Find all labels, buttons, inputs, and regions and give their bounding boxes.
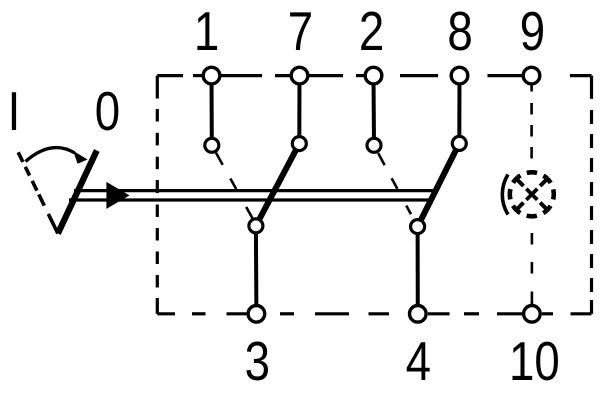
movable blade 8-4 (closed) (418, 143, 460, 226)
actuator bar bottom line (69, 198, 431, 201)
rotation arrow head (73, 151, 88, 164)
movable blade 7-3 (closed) (256, 144, 299, 226)
lever alternate position 0 (dashed) (18, 152, 58, 233)
svg-text:9: 9 (520, 0, 545, 62)
contact 1 (205, 138, 219, 152)
enclosure right edge (dashed) (590, 76, 593, 314)
pivot contact 3 (249, 219, 263, 233)
terminal 8 (451, 67, 468, 84)
enclosure top edge (dashed) (157, 74, 591, 77)
terminal 2 (365, 67, 382, 84)
terminal 3 (248, 306, 265, 323)
lamp left parenthesis mark (502, 175, 508, 215)
svg-text:1: 1 (194, 0, 219, 62)
lamp (optional illumination, dashed circle with X) (510, 172, 554, 216)
wire pivot 3 to terminal 3 (254, 226, 259, 314)
open blade position 1-3 (dashed) (216, 153, 252, 218)
terminal 7 (291, 67, 308, 84)
actuator direction arrowhead (106, 182, 129, 209)
enclosure left edge (dashed) (156, 76, 159, 314)
svg-text:8: 8 (447, 0, 472, 62)
pivot contact 4 (411, 220, 425, 234)
wire terminal 1 to contact 1 (210, 76, 214, 146)
terminal 1 (203, 67, 220, 84)
wire pivot 4 to terminal 4 (416, 227, 420, 314)
svg-text:2: 2 (359, 0, 384, 62)
wire terminal 7 to contact 7 (297, 76, 301, 144)
enclosure bottom edge (dashed) (157, 312, 591, 315)
rotation arrow arc (26, 148, 75, 162)
actuator bar top line (74, 189, 436, 192)
svg-text:0: 0 (95, 80, 120, 142)
open blade position 2-4 (dashed) (378, 153, 411, 214)
contact 8 (452, 136, 466, 150)
terminal 10 (524, 306, 541, 323)
wire terminal 2 to contact 2 (372, 76, 377, 146)
svg-text:4: 4 (406, 330, 431, 392)
lever (position I, solid) (58, 151, 97, 234)
terminal 9 (523, 67, 540, 84)
contact 2 (367, 138, 381, 152)
terminal 4 (410, 306, 427, 323)
svg-text:I: I (8, 80, 21, 142)
wire terminal 8 to contact 8 (457, 76, 461, 144)
svg-text:10: 10 (509, 330, 560, 392)
contact 7 (292, 137, 306, 151)
lamp lead to terminal 10 (dashed) (531, 233, 534, 304)
terminal 9 lead to lamp (dashed) (530, 86, 533, 159)
svg-text:3: 3 (245, 330, 270, 392)
svg-text:7: 7 (288, 0, 313, 62)
